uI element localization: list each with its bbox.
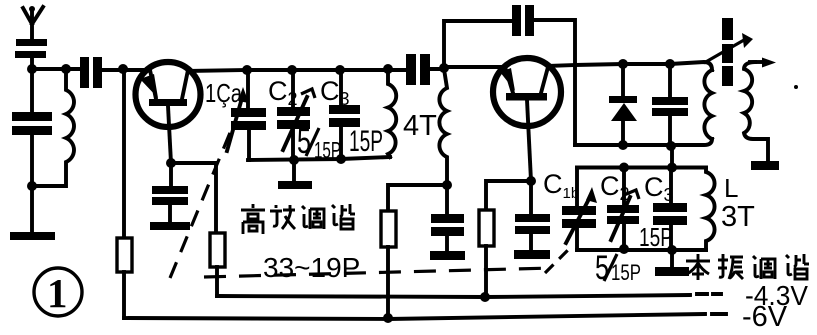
inductor L osc 3T [706, 168, 715, 251]
wire R2 to -4.3V rail [215, 267, 219, 296]
wire Q1 collector to top rail [188, 70, 247, 71]
capacitor C2 tank1 top plate [277, 107, 310, 116]
wire node O left to R4 [486, 181, 531, 210]
wire node L to Q2 emitter [444, 65, 505, 69]
capacitor C2 tank1 bottom plate [277, 120, 310, 129]
feedback wire right and down [534, 20, 575, 145]
node T junction cap bottom [666, 141, 676, 151]
wire Q2 base down [527, 100, 531, 181]
ground bar osc [655, 267, 689, 276]
-6V supply rail [124, 314, 726, 319]
node Q junction diode top [618, 59, 628, 69]
capacitor C2 osc stub [622, 168, 626, 206]
wire node E to cap [169, 163, 173, 186]
wire Q1 base down [168, 106, 171, 163]
label RF tuning 高放调谐 [241, 204, 355, 234]
capacitor feedback right plate [525, 5, 534, 36]
gang dashed line diagonal left [170, 128, 232, 278]
label LO tuning 本振调谐 [686, 254, 809, 280]
ground bar tank1 [278, 181, 312, 189]
capacitor C2 tank1 trimmer arrow [283, 97, 307, 150]
capacitor C1a stub [246, 70, 250, 108]
capacitor C2 osc trimmer arrow [611, 197, 630, 240]
wire node E to R2 [171, 163, 216, 233]
capacitor C1a arrow [227, 87, 249, 151]
capacitor emitter bypass Q2 top plate [431, 214, 464, 223]
capacitor series input right plate [93, 57, 102, 88]
wire R1 to -6V rail [122, 272, 126, 318]
capacitor feedback left plate [512, 5, 521, 36]
svg-text:1: 1 [47, 270, 68, 316]
ground bar Q1 base [150, 222, 190, 230]
capacitor C2 tank1 stub [291, 70, 295, 107]
capacitor tank2 top plate [652, 97, 688, 105]
capacitor C1b lower stub [575, 228, 579, 250]
wire cap to node C [102, 68, 123, 72]
capacitor C2 osc top plate [607, 205, 639, 213]
ground bar output [751, 161, 779, 170]
core tuning arrow [704, 33, 753, 63]
node D junction [27, 181, 37, 191]
capacitor emitter bypass Q2 bottom plate [431, 227, 464, 236]
capacitor C3 tank1 lower stub [339, 127, 343, 159]
wire coupling cap to node L [430, 67, 444, 71]
gang dashed line diagonal right [545, 246, 572, 273]
resistor R3 [381, 211, 396, 247]
capacitor C3 osc stub [669, 168, 673, 204]
capacitor tank2 stub top [668, 64, 672, 97]
resistor R1 [117, 238, 132, 272]
inductor T2 primary [704, 70, 712, 139]
resistor R1 vertical wire from node C [122, 69, 126, 238]
wire osc box to ground [670, 250, 674, 268]
node P junction on -4.3V rail [480, 292, 490, 302]
node C junction [118, 64, 128, 74]
inductor antenna coil [32, 69, 74, 186]
capacitor base bypass Q2 bottom plate [515, 226, 550, 234]
wire node O to base cap [529, 181, 533, 214]
resistor R4 [479, 210, 494, 246]
capacitor C1a bottom plate [231, 121, 266, 130]
wire node A down branch [30, 69, 34, 112]
node A junction [27, 64, 37, 74]
inductor T1 secondary [439, 69, 447, 185]
gang dashed line horizontal [204, 268, 552, 277]
figure number circle 1 [34, 268, 82, 316]
ferrite core dash 1 [722, 18, 733, 40]
node J junction [289, 155, 299, 165]
svg-text:33~19P: 33~19P [263, 252, 360, 283]
capacitor C3 osc bottom plate [653, 216, 687, 225]
wire tank2 to osc box [670, 146, 674, 167]
capacitor base bypass Q1 bottom plate [152, 197, 188, 205]
svg-text:1Ça: 1Ça [205, 78, 242, 108]
resistor R2 [210, 233, 225, 267]
capacitor C3 tank1 stub [339, 70, 343, 105]
capacitor tank2 stub bottom [668, 116, 672, 146]
node N junction on -6V rail [383, 313, 393, 323]
svg-text:4T: 4T [403, 110, 437, 142]
capacitor interstage coupling right plate [420, 54, 430, 85]
node U junction [619, 163, 629, 173]
node M junction T1 bottom [442, 180, 452, 190]
top rail tank1 [247, 68, 407, 72]
svg-text:3T: 3T [721, 201, 755, 233]
ferrite core dash 2 [722, 44, 733, 63]
transistor Q2 [493, 58, 561, 126]
svg-text:-6V: -6V [742, 301, 788, 333]
wire node B to coupling cap C [66, 67, 80, 71]
wire node A to node B [32, 67, 66, 71]
slash of 5/15P osc [604, 254, 617, 281]
capacitor C1b top plate [562, 206, 596, 215]
capacitor C2 osc bottom plate [607, 216, 639, 224]
node V junction [667, 163, 677, 173]
svg-text:15P: 15P [349, 125, 383, 158]
wire R3 to -6V rail [386, 247, 390, 319]
wire shunt cap to node D [30, 135, 34, 186]
wire cap to ground [168, 205, 172, 223]
ground bar antenna [10, 232, 55, 240]
wire node M left to R3 [388, 185, 447, 211]
inductor T2 secondary [744, 62, 768, 162]
antenna [23, 6, 43, 39]
capacitor C3 tank1 bottom plate [329, 118, 360, 127]
ground bar base Q2 [514, 250, 550, 259]
node O junction base Q2 [526, 176, 536, 186]
capacitor C1b upper stub [575, 168, 579, 207]
bottom rail tank2 [575, 139, 712, 145]
svg-text:L: L [724, 173, 738, 203]
capacitor C3 tank1 top plate [329, 105, 360, 114]
capacitor series input left plate [80, 57, 89, 88]
capacitor C2 tank1 lower stub [291, 129, 295, 160]
wire node M to bypass cap [445, 185, 449, 214]
output arrow [750, 58, 776, 68]
node F junction [242, 65, 252, 75]
capacitor C3 osc top plate [653, 203, 687, 212]
node S junction cap top [665, 59, 675, 69]
svg-text:15P: 15P [611, 260, 641, 285]
wire R4 to -4.3V rail [484, 246, 488, 297]
node G junction [287, 65, 297, 75]
node L junction [439, 63, 449, 73]
-4.3V supply rail [217, 294, 721, 297]
capacitor interstage coupling left plate [406, 54, 416, 85]
node B junction [61, 64, 71, 74]
wire bypass cap to ground [445, 236, 449, 251]
svg-text:15P: 15P [639, 222, 673, 252]
speck [794, 85, 798, 89]
node W junction [619, 244, 629, 254]
wire Q2 collector to right rail [548, 65, 575, 66]
osc box top edge [577, 166, 706, 170]
wire node C to Q1 emitter [123, 68, 150, 72]
capacitor C3 osc lower stub [669, 225, 673, 250]
node E junction base Q1 [166, 158, 176, 168]
svg-text:5: 5 [595, 249, 609, 287]
node X junction [667, 245, 677, 255]
svg-text:5: 5 [297, 122, 311, 161]
capacitor tank2 bottom plate [652, 108, 688, 116]
capacitor base bypass Q2 top plate [515, 214, 550, 222]
node H junction [335, 65, 345, 75]
capacitor base bypass Q1 top plate [152, 186, 188, 194]
wire tank1 to ground [292, 160, 296, 181]
inductor T1 primary [388, 69, 396, 157]
diode D1 [609, 64, 637, 145]
node K junction [336, 154, 346, 164]
capacitor C1a top plate [231, 108, 266, 117]
capacitor C1a lower stub [247, 130, 251, 160]
ground bar bypass Q2 [430, 251, 465, 260]
bottom rail tank1 [248, 157, 390, 160]
osc box bottom edge [577, 248, 706, 252]
capacitor C1b arrow [566, 187, 597, 243]
wire antenna cap to node A [30, 58, 34, 69]
node I junction [383, 64, 393, 74]
capacitor antenna coupling bottom plate [15, 51, 46, 58]
transistor Q1 [136, 62, 201, 127]
top rail tank2 [575, 62, 712, 70]
node R junction diode bottom [618, 140, 628, 150]
capacitor C2 osc lower stub [622, 224, 626, 249]
capacitor antenna shunt top plate [12, 112, 52, 121]
ferrite core dash 3 [722, 66, 733, 86]
slash of 5/15P tank1 [306, 128, 319, 156]
capacitor antenna shunt bottom plate [12, 126, 52, 135]
wire node D to ground [30, 186, 34, 233]
capacitor antenna coupling top plate [16, 39, 47, 46]
capacitor C1b bottom plate [562, 219, 596, 228]
wire base cap to ground [529, 234, 533, 250]
feedback loop wire up [444, 21, 512, 68]
